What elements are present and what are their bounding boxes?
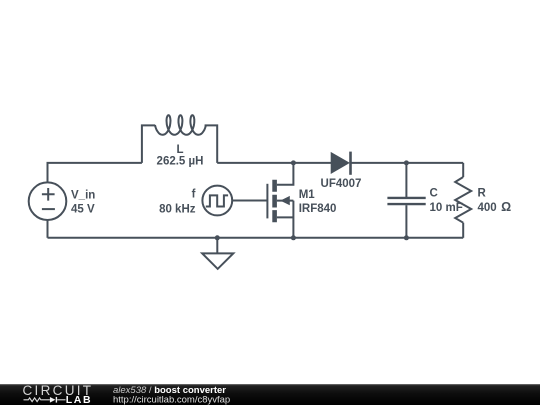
svg-text:V_in: V_in xyxy=(71,190,95,202)
capacitor C xyxy=(387,163,425,238)
svg-text:400 Ω: 400 Ω xyxy=(478,200,512,214)
footer title text xyxy=(113,385,230,405)
wire bottom rail xyxy=(48,237,464,239)
wire V_in bottom lead xyxy=(47,220,49,238)
svg-text:45 V: 45 V xyxy=(71,204,95,216)
svg-text:10 mF: 10 mF xyxy=(430,202,463,214)
wire gate lead xyxy=(232,200,267,202)
CircuitLab logo xyxy=(23,383,94,405)
transistor M1 xyxy=(267,163,293,238)
square wave source f xyxy=(202,186,232,216)
node capacitor top junction xyxy=(404,160,409,165)
wire top-left (V_in plus terminal to inductor) xyxy=(48,163,142,183)
footer bar xyxy=(0,384,540,405)
svg-text:LAB: LAB xyxy=(66,394,92,405)
voltage source V_in xyxy=(29,182,67,220)
svg-text:f: f xyxy=(192,189,196,201)
resistor R xyxy=(455,163,471,238)
svg-text:UF4007: UF4007 xyxy=(321,178,362,190)
inductor L xyxy=(142,115,217,163)
wire top rail (diode cathode to resistor corner) xyxy=(351,162,463,164)
wire top rail (inductor to diode anode) xyxy=(217,162,331,164)
svg-text:262.5 µH: 262.5 µH xyxy=(157,155,204,167)
node capacitor bottom junction xyxy=(404,235,409,240)
node ground junction xyxy=(215,235,220,240)
svg-text:M1: M1 xyxy=(299,189,316,201)
node drain junction xyxy=(291,160,296,165)
svg-text:IRF840: IRF840 xyxy=(299,203,337,215)
svg-text:C: C xyxy=(430,188,438,200)
node source junction xyxy=(291,235,296,240)
svg-text:L: L xyxy=(176,144,183,156)
svg-text:http://circuitlab.com/c8yvfap: http://circuitlab.com/c8yvfap xyxy=(113,395,230,405)
svg-text:80 kHz: 80 kHz xyxy=(159,204,196,216)
ground xyxy=(202,238,233,269)
diode UF4007 xyxy=(332,152,351,175)
svg-text:R: R xyxy=(478,188,487,200)
